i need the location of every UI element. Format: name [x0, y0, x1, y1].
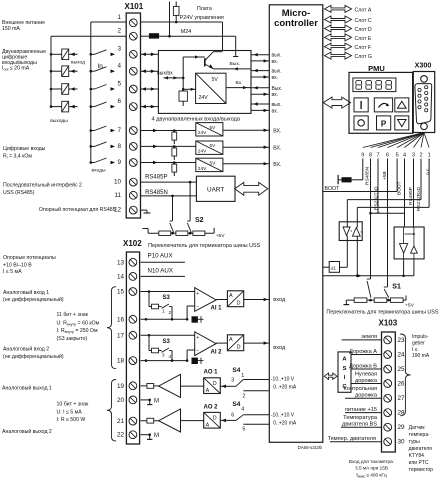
wire pin 4 to I/O box bidirectional	[141, 70, 159, 72]
svg-text:Вых.: Вых.	[230, 61, 241, 67]
output resistor AO1	[147, 384, 154, 389]
svg-text:(S3 закрыто): (S3 закрыто)	[57, 336, 88, 342]
wire RS232 driver outputs down	[403, 259, 405, 276]
svg-text:5: 5	[117, 80, 121, 87]
svg-text:X101: X101	[125, 2, 144, 11]
RS232 down triangle	[400, 244, 408, 254]
wire pin2 to RS485 driver input a	[420, 159, 422, 200]
terminal strip X102 body	[126, 252, 139, 444]
svg-text:1: 1	[162, 309, 165, 314]
svg-text:5: 5	[396, 153, 399, 159]
svg-text:6: 6	[231, 412, 234, 418]
brace analog outputs 19-22	[107, 380, 116, 442]
node on line 16	[145, 318, 148, 321]
PMU button up	[395, 98, 409, 112]
wire S1 tee	[369, 212, 372, 215]
wire A/D to micro input 1	[244, 299, 270, 301]
svg-text:M: M	[154, 433, 159, 439]
svg-text:Дорожка B: Дорожка B	[349, 363, 377, 369]
terminal X101 pin 11	[129, 191, 137, 199]
switch input row 9	[90, 161, 93, 164]
svg-text:ВХ.: ВХ.	[273, 162, 281, 168]
svg-text:Слот D: Слот D	[355, 27, 372, 33]
svg-text:входы: входы	[92, 168, 106, 173]
bidirectional I/O block box	[158, 51, 251, 114]
svg-text:11 бит + знак: 11 бит + знак	[57, 312, 89, 318]
ground tap bar	[337, 175, 339, 184]
M24 stub inside box	[235, 51, 237, 57]
wire left divider vertical	[182, 57, 184, 89]
terminal strip X101 body	[126, 13, 140, 218]
svg-text:S: S	[343, 366, 347, 372]
S3 branch resistor AI1	[148, 290, 151, 293]
svg-text:geber: geber	[412, 340, 425, 346]
svg-text:RS485P: RS485P	[145, 174, 167, 180]
wire base feed with arrow	[183, 56, 205, 58]
RS232 up triangle	[411, 246, 418, 253]
switch In row 5	[90, 88, 93, 91]
terminal X101 pin 8	[129, 143, 137, 151]
op-amp AI1	[195, 288, 216, 312]
svg-text:темпера-: темпера-	[409, 432, 431, 438]
svg-text:25: 25	[398, 366, 406, 373]
terminal X101 pin 9	[129, 159, 137, 167]
wire converter 7 to micro BX	[223, 129, 269, 131]
bus arrow Слот D	[325, 25, 352, 32]
svg-text:1: 1	[117, 14, 121, 21]
wire I/O channel 1 output to micro	[251, 54, 269, 56]
digital I/O load row 5: wire from load rail	[50, 88, 53, 91]
wire collector feed inside box	[214, 51, 223, 53]
bidirectional arrow micro to PMU	[323, 97, 350, 108]
svg-text:S3: S3	[163, 295, 171, 301]
wire I/O channel 2 output to micro	[251, 70, 269, 72]
svg-text:туры: туры	[409, 439, 421, 445]
svg-text:или PTC: или PTC	[409, 460, 429, 466]
svg-text:26: 26	[398, 381, 406, 388]
wire track B to pin25	[351, 368, 382, 370]
svg-text:Переключатель для терминатора: Переключатель для терминатора шины USS	[326, 310, 438, 316]
wire pin20 M ground	[141, 399, 150, 401]
wire S4 common AO1 with arrow into D/A	[220, 385, 236, 387]
svg-text:Слот G: Слот G	[355, 54, 372, 60]
switch S3 contacts 3-4	[162, 348, 170, 352]
wire RS485P down to S1	[387, 159, 389, 288]
PMU button O	[354, 116, 368, 130]
svg-text:AI 1: AI 1	[211, 306, 223, 312]
svg-text:−: −	[196, 304, 199, 310]
wire digital input 7 to converter	[141, 130, 196, 132]
PMU button down	[395, 116, 409, 130]
svg-text:дорожка: дорожка	[355, 393, 378, 399]
svg-text:4 двунаправленных входа/выхода: 4 двунаправленных входа/выхода	[152, 117, 241, 123]
svg-text:3: 3	[231, 378, 234, 384]
svg-text:7: 7	[117, 127, 121, 134]
load symbol row 3	[62, 49, 69, 60]
svg-text:USS (RS485): USS (RS485)	[3, 190, 35, 196]
svg-text:0..+20 mA: 0..+20 mA	[273, 385, 297, 391]
switch S2 contact a	[170, 220, 173, 222]
load symbol row 6	[62, 101, 69, 112]
svg-text:Последовательный интерфейс 2: Последовательный интерфейс 2	[3, 182, 82, 189]
ground symbol pin12	[141, 209, 148, 211]
wire pin13 P10	[141, 261, 186, 263]
wire I/O channel 4 input to micro	[251, 109, 269, 111]
resistor in I/O box	[179, 91, 187, 101]
PMU panel body	[349, 72, 413, 133]
svg-text:AO 1: AO 1	[204, 370, 219, 376]
svg-text:5: 5	[242, 427, 245, 433]
svg-text:5V: 5V	[210, 143, 217, 149]
pull resistor input 9	[173, 161, 176, 164]
digital I/O load row 3: wire from load rail	[50, 53, 53, 56]
wire zemlya to pin23	[342, 339, 382, 341]
svg-text:Контрольная: Контрольная	[343, 386, 377, 392]
svg-text:A: A	[206, 423, 210, 429]
svg-text:вых.: вых.	[272, 69, 282, 75]
svg-text:1: 1	[428, 153, 431, 159]
svg-text:8: 8	[117, 143, 121, 150]
wire BOOT vertical	[396, 159, 398, 192]
svg-text:190 mA: 190 mA	[412, 353, 430, 359]
svg-text:5V: 5V	[210, 125, 217, 131]
svg-text:Датчик: Датчик	[409, 425, 426, 431]
svg-text:S2: S2	[195, 217, 204, 224]
svg-text:вых.: вых.	[272, 53, 282, 59]
A/D converter AI2	[227, 335, 243, 351]
svg-text:1: 1	[241, 373, 244, 379]
svg-text:Слот C: Слот C	[355, 18, 372, 24]
svg-text:Вход для тахометра:: Вход для тахометра:	[349, 459, 394, 464]
wire AI2 to A/D	[216, 342, 227, 344]
wire pin1 left rail corner	[91, 21, 126, 23]
X300 pins column right	[425, 86, 428, 89]
DC/DC converter 24V to 5V in I/O box	[196, 73, 226, 103]
wire pin21 output line	[141, 420, 159, 422]
wire S4 contact5 AO2	[243, 423, 269, 425]
load symbol row 4	[62, 66, 69, 77]
PMU button I	[354, 98, 368, 112]
svg-text:24V: 24V	[198, 149, 207, 155]
svg-text:Плата: Плата	[197, 6, 212, 12]
wire pin2 left rail corner	[51, 35, 126, 37]
svg-text:4: 4	[117, 63, 121, 70]
svg-text:4: 4	[241, 407, 244, 413]
wire digital input 9 to converter	[141, 162, 196, 164]
wire pin22 M ground	[141, 434, 150, 436]
UART U2	[196, 176, 235, 201]
svg-text:I: R ≤ 500 W: I: R ≤ 500 W	[57, 417, 86, 423]
wire RS485 driver input riser	[356, 236, 358, 276]
svg-text:KTY84: KTY84	[409, 453, 425, 459]
terminal X101 pin 10	[129, 178, 137, 186]
bidirectional arrow micro to ASIC	[324, 373, 337, 379]
wire control track to pin27	[345, 397, 382, 399]
terminal X103 pin 30	[384, 438, 392, 446]
wire I/O channel 3 output to micro	[251, 87, 269, 89]
svg-text:2: 2	[242, 393, 245, 399]
RS485 driver down triangle	[343, 227, 350, 236]
svg-text:I ≤: I ≤	[412, 347, 418, 353]
RS485 driver up triangle	[352, 228, 360, 237]
svg-text:+10 В/–10 В: +10 В/–10 В	[3, 262, 32, 268]
pull resistor on RS485N	[342, 177, 352, 182]
wire S4 common AO2 with arrow into D/A	[220, 419, 236, 421]
switch S1 contact b	[384, 286, 388, 288]
arrow into load row 4	[69, 70, 78, 72]
slot bus vertical	[322, 9, 324, 56]
svg-text:4: 4	[169, 354, 172, 359]
svg-text:AO 2: AO 2	[204, 404, 219, 410]
svg-text:RS485P: RS485P	[408, 187, 414, 205]
svg-text:8: 8	[369, 153, 372, 159]
svg-text:RS485N: RS485N	[364, 166, 370, 185]
terminal X103 pin 28	[384, 409, 392, 417]
svg-text:Нулевая: Нулевая	[355, 371, 377, 377]
brace analog inputs 15-18	[107, 287, 116, 369]
svg-text:S4: S4	[232, 367, 240, 374]
ground bar at S1 chain left end	[345, 300, 347, 304]
load symbol row 5	[62, 84, 69, 95]
buffer amplifier AO2	[159, 409, 181, 432]
terminal X102 pin 16	[129, 315, 137, 323]
terminal X101 pin 1	[129, 19, 137, 27]
svg-text:термистор: термистор	[409, 467, 434, 473]
svg-text:3,5 мА при 15В: 3,5 мА при 15В	[355, 465, 388, 470]
svg-text:-10..+10 V: -10..+10 V	[271, 413, 295, 419]
display digit 2	[366, 80, 371, 82]
svg-text:17: 17	[117, 332, 125, 339]
wire S2 riser from RS485N	[171, 195, 174, 198]
svg-text:(не дифференциальный): (не дифференциальный)	[3, 353, 64, 360]
PMU button jog	[374, 98, 392, 112]
switch S1 contact a	[367, 278, 371, 280]
switch In row 6	[90, 105, 93, 108]
switch S2 contact b	[187, 220, 190, 222]
X300 D-sub shell	[415, 84, 432, 124]
S1 terminator resistor chain	[346, 299, 406, 301]
wire motor temp BS to pin29	[341, 426, 382, 428]
svg-text:N10 AUX: N10 AUX	[148, 267, 173, 274]
svg-text:D: D	[237, 301, 241, 307]
svg-text:Impuls-: Impuls-	[412, 334, 429, 340]
wire pin17 to op-amp AI2	[141, 334, 195, 336]
svg-text:S3: S3	[163, 339, 171, 345]
svg-text:3: 3	[412, 153, 415, 159]
svg-text:S1: S1	[392, 283, 401, 290]
svg-text:двигателя: двигателя	[409, 446, 433, 452]
wire pin1 to RS485 driver input b	[428, 159, 430, 208]
svg-text:23: 23	[398, 337, 406, 344]
terminal X101 pin 4	[129, 67, 137, 75]
svg-text:P24V управления: P24V управления	[180, 15, 224, 21]
svg-text:5V: 5V	[210, 160, 217, 166]
wire emitter output with left arrow	[214, 68, 252, 70]
ASIC box	[338, 352, 351, 392]
svg-text:I ≤ 5 мА: I ≤ 5 мА	[3, 269, 22, 275]
wire AI1 to A/D	[216, 299, 227, 301]
wire digital input 8 to converter	[141, 145, 196, 147]
svg-text:10 бит + знак: 10 бит + знак	[57, 402, 89, 408]
svg-text:DA65-s310b: DA65-s310b	[298, 445, 323, 450]
wire A/D to micro input 2	[244, 342, 270, 344]
svg-text:двигателя BS: двигателя BS	[342, 422, 377, 428]
svg-text:Аналоговый выход 1: Аналоговый выход 1	[2, 385, 52, 392]
svg-text:2: 2	[419, 153, 422, 159]
terminal X102 pin 19	[129, 382, 137, 390]
svg-text:PMU: PMU	[368, 64, 385, 73]
terminal X103 pin 25	[384, 365, 392, 373]
svg-text:16: 16	[117, 316, 125, 323]
wire M24 rail	[159, 35, 236, 37]
terminal X102 pin 14	[129, 273, 137, 281]
filter capacitor AI2	[192, 358, 198, 364]
wire op-amp minus riser	[186, 318, 189, 321]
svg-text:дорожка: дорожка	[355, 378, 378, 384]
brace encoder pins 23-28	[400, 334, 410, 416]
svg-text:Слот E: Слот E	[355, 36, 372, 42]
bus arrow Слот G	[325, 52, 352, 59]
svg-text:29: 29	[398, 424, 406, 431]
wire pin 1 P24V line	[141, 21, 223, 23]
svg-text:6: 6	[117, 98, 121, 105]
svg-text:30: 30	[398, 439, 406, 446]
node on line 18	[145, 359, 148, 362]
svg-text:U: I ≤ 5 мА: U: I ≤ 5 мА	[57, 409, 83, 415]
svg-text:S4: S4	[232, 401, 240, 408]
display digit 4	[386, 80, 391, 82]
svg-text:ВХ.: ВХ.	[273, 145, 281, 151]
terminal X102 pin 15	[129, 288, 137, 296]
pull resistor input 8	[173, 145, 176, 148]
svg-text:24: 24	[398, 352, 406, 359]
fuse to P24V board	[175, 2, 177, 21]
terminal X102 pin 17	[129, 331, 137, 339]
terminal X102 pin 20	[129, 396, 137, 404]
terminal X101 pin 6	[129, 103, 137, 111]
wire pin14 N10	[141, 275, 186, 277]
X300 connector body	[413, 72, 434, 133]
wire I/O channel 3 input to micro	[251, 93, 269, 95]
wire long horizontal to RS232 driver	[323, 275, 414, 277]
wire pin 5 to I/O box bidirectional	[141, 88, 159, 90]
wire buffer to D/A AO2	[181, 420, 204, 422]
wire buffer to D/A AO1	[181, 385, 204, 387]
terminal X103 pin 27	[384, 394, 392, 402]
X300 fan-out wires	[363, 133, 424, 148]
X300 pins column left	[418, 88, 421, 91]
display digit 1	[356, 80, 361, 82]
svg-text:Опорные потенциалы: Опорные потенциалы	[3, 255, 56, 261]
PMU display	[353, 78, 396, 92]
wire BOOT horizontal to micro	[323, 191, 397, 193]
svg-text:вх.: вх.	[272, 92, 279, 98]
svg-text:D: D	[237, 345, 241, 351]
svg-text:5V: 5V	[212, 77, 219, 83]
wire RS485 driver output down to gate	[346, 236, 348, 268]
svg-text:13: 13	[117, 259, 125, 266]
RS232 internal wiring	[403, 227, 405, 244]
svg-text:I: Rвнутр = 250 Ом: I: Rвнутр = 250 Ом	[57, 328, 98, 334]
svg-text:3: 3	[117, 46, 121, 53]
wire converter 9 to micro BX	[223, 163, 269, 165]
bus arrow Слот F	[325, 43, 352, 50]
wire RS485N pin11 to UART	[141, 195, 197, 197]
svg-text:RS485N: RS485N	[145, 190, 168, 196]
transistor Q1 npn	[204, 58, 206, 66]
svg-text:2: 2	[169, 310, 172, 315]
svg-text:Аналоговый выход 2: Аналоговый выход 2	[2, 428, 52, 435]
svg-text:7: 7	[376, 153, 379, 159]
wire ground tap stub	[337, 180, 339, 185]
svg-text:+5V: +5V	[405, 302, 415, 308]
switch input row 8	[90, 145, 93, 148]
svg-text:Ri = 3,4 кОм: Ri = 3,4 кОм	[3, 154, 32, 160]
svg-text:24V: 24V	[199, 95, 209, 101]
svg-text:AI 2: AI 2	[211, 350, 223, 356]
svg-text:Вых.: Вых.	[272, 86, 283, 92]
wire RS232 feed 2 down to driver box	[413, 159, 415, 228]
wire track A to pin24	[351, 354, 382, 356]
logic gate >=1	[329, 262, 339, 273]
svg-text:24V: 24V	[198, 166, 207, 172]
wire op-amp minus riser AI2	[186, 359, 189, 362]
switch S4 blade AO1	[236, 380, 243, 387]
wire I/O channel 1 input to micro	[251, 60, 269, 62]
wire motor temp to pin30	[330, 441, 382, 443]
digital I/O load row 4: wire from load rail	[50, 70, 53, 73]
svg-text:20: 20	[117, 397, 125, 404]
svg-text:Опорный потенциал для RS485: Опорный потенциал для RS485	[39, 206, 116, 213]
wire zero track to pin26	[351, 383, 382, 385]
wire RS485N down to pull resistor	[362, 159, 364, 180]
switch input row 7	[90, 129, 93, 132]
svg-text:D: D	[213, 415, 217, 421]
svg-text:вход: вход	[273, 345, 286, 351]
svg-text:2: 2	[117, 28, 121, 35]
microcontroller U1 box	[269, 5, 323, 443]
svg-text:X103: X103	[379, 319, 398, 328]
svg-text:A: A	[229, 293, 233, 299]
bidirectional arrow inside box	[164, 77, 184, 79]
svg-text:-10..+10 V: -10..+10 V	[271, 377, 295, 383]
svg-text:вх.: вх.	[272, 75, 279, 81]
svg-text:вых/вх: вых/вх	[157, 71, 173, 77]
wire S4 contact2 AO1	[243, 390, 269, 392]
terminal X103 pin 24	[384, 351, 392, 359]
output resistor AO2	[147, 418, 154, 423]
S3 branch resistor AI2	[148, 334, 151, 337]
terminal X103 pin 29	[384, 423, 392, 431]
svg-text:9: 9	[361, 153, 364, 159]
svg-text:M: M	[154, 398, 159, 404]
svg-text:земля: земля	[361, 334, 377, 340]
ferrite resistor on M24 line	[141, 35, 149, 37]
wire pin18 return line	[141, 360, 188, 362]
terminal X101 pin 5	[129, 85, 137, 93]
svg-text:9: 9	[117, 159, 121, 166]
svg-text:0..+20 mA: 0..+20 mA	[273, 421, 297, 427]
terminal X103 pin 23	[384, 336, 392, 344]
svg-text:4: 4	[403, 153, 406, 159]
svg-text:6: 6	[386, 153, 389, 159]
digital I/O load row 6: wire from load rail	[50, 105, 53, 108]
svg-text:Дорожка A: Дорожка A	[349, 349, 377, 355]
svg-text:+: +	[196, 335, 199, 341]
bus arrow Слот C	[325, 16, 352, 23]
wire to DC/DC with arrow	[183, 88, 195, 90]
wire RS232 feed 1 down to driver box	[404, 159, 406, 228]
